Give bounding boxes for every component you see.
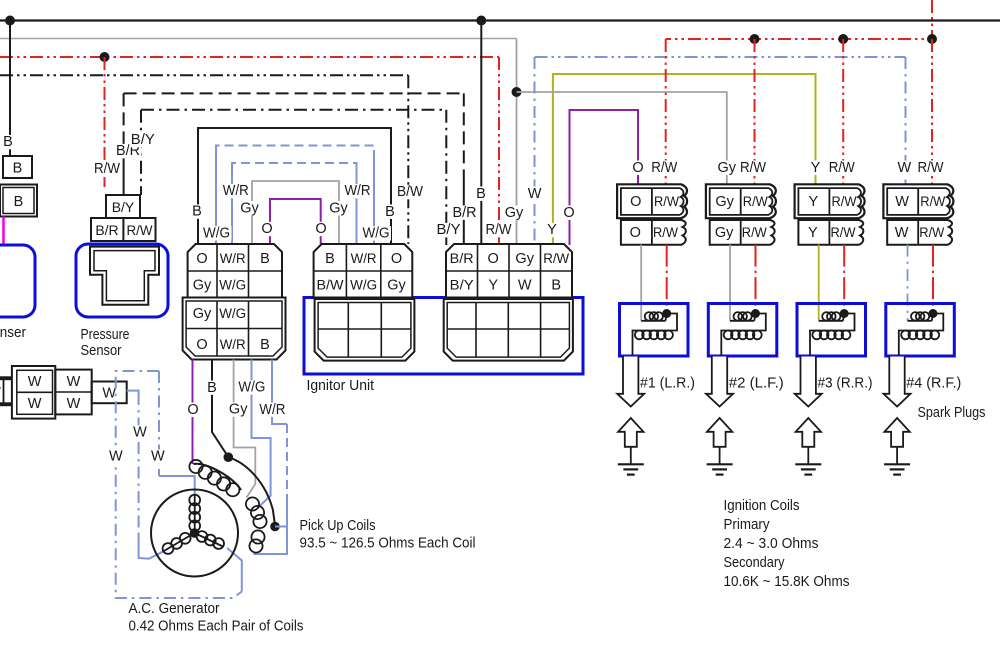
wire B/R drop right xyxy=(463,93,465,180)
wire B drop to condenser xyxy=(9,21,11,157)
coil4 primary winding xyxy=(908,320,932,322)
wire pickup to W/R xyxy=(275,526,287,528)
node junction R/W coil4 xyxy=(927,34,937,44)
label B ignitor xyxy=(475,187,486,201)
svg-text:R/W: R/W xyxy=(653,225,678,240)
ground coil4 xyxy=(884,463,910,465)
svg-text:W/R: W/R xyxy=(220,251,246,266)
svg-text:Y: Y xyxy=(808,194,818,210)
wire W/R to pickup upper xyxy=(272,360,287,425)
svg-text:Spark Plugs: Spark Plugs xyxy=(918,405,986,421)
node junction R/W pressure sensor xyxy=(100,52,110,62)
wire R/W drop coil3 xyxy=(842,39,844,184)
coil1 primary winding xyxy=(641,320,665,322)
label W ignitor xyxy=(529,187,540,201)
coil3 connector lower xyxy=(798,220,863,245)
ground coil2 xyxy=(707,463,733,465)
svg-text:Secondary: Secondary xyxy=(724,555,786,571)
svg-text:B: B xyxy=(385,204,395,220)
svg-text:Gy: Gy xyxy=(505,205,524,221)
wire plug to ground coil3 xyxy=(807,447,809,464)
node pickup junction 1 xyxy=(224,452,234,462)
svg-text:Pressure: Pressure xyxy=(81,327,130,343)
connector 2-pin W xyxy=(55,370,91,415)
node pickup junction 2 xyxy=(270,522,280,532)
coil2 connector upper xyxy=(706,184,776,218)
svg-text:Primary: Primary xyxy=(724,517,771,533)
wire W/R dashed drop xyxy=(286,424,288,500)
wire B/W drop to ignitor xyxy=(407,75,409,244)
wire Y olive bus xyxy=(553,74,816,245)
svg-text:R/W: R/W xyxy=(651,160,677,176)
coil3 primary winding xyxy=(819,320,843,322)
wire R/W into coil3 xyxy=(843,245,845,314)
label Gy pickup xyxy=(228,402,248,416)
svg-text:Gy: Gy xyxy=(718,160,737,176)
svg-text:W/R: W/R xyxy=(220,337,246,352)
label R/W ignitor xyxy=(484,223,513,237)
wire Gy branch to coil2 xyxy=(517,92,727,184)
node junction R/W coil2 xyxy=(750,34,760,44)
ground coil3 xyxy=(795,463,821,465)
node junction condenser feed xyxy=(5,16,15,26)
svg-text:B: B xyxy=(260,337,270,353)
svg-text:Gy: Gy xyxy=(387,278,406,294)
ignitor grid right xyxy=(444,299,573,361)
condenser pin box B double xyxy=(0,185,37,217)
svg-text:Gy: Gy xyxy=(193,306,212,322)
wire Gy to pickup xyxy=(234,360,256,498)
ignitor grid left xyxy=(315,299,415,361)
svg-text:W: W xyxy=(895,194,909,210)
label Gy ignitor xyxy=(504,206,524,220)
svg-text:B: B xyxy=(14,194,24,210)
label Y R/W coil3 xyxy=(810,161,821,175)
pickup coil B xyxy=(246,497,259,510)
wire W/G to pickup xyxy=(252,360,271,509)
wire W dash-dot drop xyxy=(138,393,140,534)
svg-text:W/G: W/G xyxy=(363,226,390,242)
node coil3 tap xyxy=(840,309,849,318)
label W/R left crossover xyxy=(221,184,250,198)
wire W blue drop to coil4 xyxy=(905,57,907,184)
coil4 connector upper xyxy=(883,184,953,218)
svg-text:O: O xyxy=(196,251,207,267)
coil2 spark plug arrow up xyxy=(707,418,732,447)
coil3 spark plug arrow up xyxy=(796,418,821,447)
wire W dash-dot right leg xyxy=(158,371,160,476)
wire gray bus xyxy=(0,38,517,40)
node junction Gy branch xyxy=(512,87,522,97)
label B/Y pressure xyxy=(129,133,156,147)
wire plug to ground coil1 xyxy=(630,447,632,464)
svg-text:B/Y: B/Y xyxy=(112,199,135,215)
svg-text:Y: Y xyxy=(808,225,818,241)
svg-text:B: B xyxy=(207,380,217,396)
label W/G left crossover xyxy=(202,226,232,240)
svg-text:Y: Y xyxy=(811,160,821,176)
svg-text:W: W xyxy=(895,225,909,241)
svg-text:B/Y: B/Y xyxy=(131,132,155,148)
svg-text:B/W: B/W xyxy=(317,278,344,293)
svg-text:B/Y: B/Y xyxy=(437,222,461,238)
svg-text:B: B xyxy=(551,278,561,294)
node junction R/W coil3 xyxy=(838,34,848,44)
svg-text:W: W xyxy=(151,449,165,465)
svg-text:W: W xyxy=(109,449,123,465)
generator circle xyxy=(151,490,238,577)
svg-text:B: B xyxy=(192,204,202,220)
pickup coil arc xyxy=(228,457,275,525)
coil4 HT arrow down xyxy=(884,357,911,407)
svg-text:W: W xyxy=(518,278,532,294)
wire B/Y dash-dot run xyxy=(141,109,446,111)
node coil1 tap xyxy=(662,309,671,318)
svg-text:W: W xyxy=(528,186,542,202)
svg-text:Sensor: Sensor xyxy=(81,343,122,359)
svg-text:B: B xyxy=(325,251,335,267)
pickup coil A xyxy=(194,464,242,490)
wire Gy into coil2 xyxy=(729,245,731,321)
coil2 secondary winding xyxy=(721,314,766,357)
wire R/W drop coil2 xyxy=(754,39,756,184)
svg-text:W: W xyxy=(28,374,42,390)
wire B/Y drop left xyxy=(140,110,142,195)
wire W/G crossover xyxy=(215,151,217,244)
wire O into coil1 xyxy=(640,245,642,321)
label W generator 2 xyxy=(110,449,121,463)
wire W/R crossover xyxy=(231,168,233,244)
coil4 spark plug arrow up xyxy=(884,418,909,447)
wire B crossover xyxy=(198,128,391,244)
svg-text:Gy: Gy xyxy=(229,402,248,418)
svg-text:O: O xyxy=(196,337,207,353)
svg-text:#2 (L.F.): #2 (L.F.) xyxy=(729,376,784,392)
label B pickup xyxy=(206,381,217,395)
svg-text:R/W: R/W xyxy=(832,194,857,209)
label W generator 3 xyxy=(152,449,163,463)
wire Gy crossover xyxy=(252,181,339,244)
coil2 primary winding xyxy=(730,320,754,322)
svg-text:W/R: W/R xyxy=(223,183,249,199)
svg-text:O: O xyxy=(488,251,499,267)
coil2 connector lower xyxy=(710,220,775,245)
wire W into coil4 xyxy=(907,245,909,321)
label W/R right crossover xyxy=(343,184,372,198)
label B/R pressure xyxy=(115,144,142,158)
connector middle B W/R O xyxy=(314,244,413,298)
svg-text:R/W: R/W xyxy=(918,160,944,176)
label Gy right crossover xyxy=(329,201,349,215)
condenser body xyxy=(0,245,35,317)
svg-text:R/W: R/W xyxy=(920,194,945,209)
svg-text:O: O xyxy=(630,225,641,241)
label Gy left crossover xyxy=(240,201,260,215)
svg-text:0.42 Ohms Each Pair of Coils: 0.42 Ohms Each Pair of Coils xyxy=(129,619,304,635)
coil1 spark plug arrow up xyxy=(618,418,643,447)
svg-text:B: B xyxy=(476,186,486,202)
wire generator SE exit xyxy=(227,548,242,592)
svg-text:2.4 ~ 3.0 Ohms: 2.4 ~ 3.0 Ohms xyxy=(724,536,819,552)
svg-text:R/W: R/W xyxy=(543,251,569,266)
svg-text:R/W: R/W xyxy=(831,225,856,240)
wire W to generator top xyxy=(159,476,195,494)
wire B/W black bus xyxy=(0,74,408,76)
svg-text:O: O xyxy=(563,205,574,221)
svg-text:10.6K ~ 15.8K Ohms: 10.6K ~ 15.8K Ohms xyxy=(724,574,850,590)
svg-text:R/W: R/W xyxy=(486,222,512,238)
svg-text:#4 (R.F.): #4 (R.F.) xyxy=(906,376,961,392)
label B/W ignitor xyxy=(396,185,425,199)
label R/W pressure xyxy=(93,162,122,176)
ignition coil2 box xyxy=(708,304,777,357)
svg-text:R/W: R/W xyxy=(94,161,120,177)
pressure sensor body xyxy=(76,244,168,317)
label W/G pickup xyxy=(237,380,267,394)
wire R/W drop coil1 xyxy=(665,39,667,184)
coil2 HT arrow down xyxy=(706,357,733,407)
label O R/W coil1 xyxy=(632,161,643,175)
wire main black bus xyxy=(0,19,1000,21)
label O right crossover xyxy=(315,222,326,236)
connector 4-pin W xyxy=(12,366,55,419)
ignition coil3 box xyxy=(797,304,866,357)
ground coil1 xyxy=(618,463,644,465)
svg-text:W/G: W/G xyxy=(238,380,265,396)
coil1 secondary winding xyxy=(633,314,678,357)
label W/R pickup xyxy=(258,403,287,417)
coil3 connector upper xyxy=(795,184,865,218)
svg-text:R/W: R/W xyxy=(829,160,855,176)
label B right crossover xyxy=(384,205,395,219)
ignitor unit box xyxy=(304,298,583,375)
svg-text:W/G: W/G xyxy=(350,278,377,293)
svg-text:O: O xyxy=(315,221,326,237)
coil1 connector lower xyxy=(621,220,686,245)
label B left crossover xyxy=(191,204,202,218)
svg-text:O: O xyxy=(391,251,402,267)
svg-text:W: W xyxy=(133,425,147,441)
svg-text:#3 (R.R.): #3 (R.R.) xyxy=(818,376,873,392)
svg-text:#1 (L.R.): #1 (L.R.) xyxy=(640,376,695,392)
svg-text:93.5 ~ 126.5 Ohms Each Coil: 93.5 ~ 126.5 Ohms Each Coil xyxy=(300,536,476,552)
svg-text:Condenser: Condenser xyxy=(0,325,26,341)
svg-text:W: W xyxy=(28,396,42,412)
svg-text:Ignitor Unit: Ignitor Unit xyxy=(307,378,375,394)
generator coil top xyxy=(194,494,196,533)
coil4 secondary winding xyxy=(899,314,944,357)
node coil4 tap xyxy=(929,309,938,318)
wire R/W drop to pressure sensor xyxy=(104,57,106,187)
wire Gy gray riser xyxy=(516,39,518,246)
label W generator 1 xyxy=(134,425,145,439)
ignition coil4 box xyxy=(886,304,955,357)
wire B/R drop left xyxy=(123,93,125,148)
connector right B/R O Gy R/W xyxy=(446,244,572,298)
svg-text:B: B xyxy=(260,251,270,267)
label O left crossover xyxy=(261,222,272,236)
svg-text:W/G: W/G xyxy=(219,306,246,321)
svg-text:B: B xyxy=(13,161,23,177)
wire Y into coil3 xyxy=(818,245,820,321)
coil3 HT arrow down xyxy=(795,357,822,407)
svg-text:Gy: Gy xyxy=(715,225,734,241)
wire R/W red riser to ignitor xyxy=(498,57,500,245)
ignition coil1 box xyxy=(620,304,689,357)
svg-text:R/W: R/W xyxy=(654,194,679,209)
svg-text:Ignition Coils: Ignition Coils xyxy=(724,498,800,514)
wire magenta condenser xyxy=(2,217,5,246)
coil3 secondary winding xyxy=(810,314,855,357)
svg-text:Y: Y xyxy=(547,222,557,238)
wire W blue bus xyxy=(535,56,906,58)
label Y ignitor xyxy=(546,223,557,237)
svg-text:Y: Y xyxy=(488,278,498,294)
wire R/W red bus top xyxy=(666,0,932,39)
wire W dash-dot frame xyxy=(116,371,242,598)
wire B/R dashed run xyxy=(124,92,464,94)
wire R/W into coil1 xyxy=(666,245,668,314)
wire W blue from tab xyxy=(127,391,139,393)
coil1 HT arrow down xyxy=(617,357,644,407)
label O pickup xyxy=(187,403,198,417)
node generator center xyxy=(190,528,200,538)
connector left-bottom Gy W/G O W/R B xyxy=(183,298,286,360)
wire plug to ground coil2 xyxy=(719,447,721,464)
wire B black drop to ignitor xyxy=(480,21,482,246)
label O ignitor xyxy=(563,206,574,220)
wire plug to ground coil4 xyxy=(896,447,898,464)
svg-text:Gy: Gy xyxy=(329,200,348,216)
svg-text:B/R: B/R xyxy=(450,251,474,266)
wire O purple run xyxy=(570,110,639,245)
wire O purple to pickup xyxy=(192,360,194,465)
coil1 connector upper xyxy=(617,184,687,218)
generator coil SE xyxy=(195,533,224,547)
svg-text:W: W xyxy=(102,386,116,402)
svg-text:B/Y: B/Y xyxy=(450,278,474,293)
svg-text:O: O xyxy=(261,221,272,237)
connector left-top O W/R B xyxy=(188,244,282,298)
svg-text:Gy: Gy xyxy=(193,278,212,294)
wire W to generator SW xyxy=(139,534,164,559)
label B/R ignitor xyxy=(451,206,478,220)
svg-text:B/R: B/R xyxy=(453,205,477,221)
node junction B ignitor feed xyxy=(476,16,486,26)
svg-text:B/R: B/R xyxy=(95,222,118,238)
wire O crossover xyxy=(270,199,321,244)
generator coil SW xyxy=(163,533,195,552)
svg-text:R/W: R/W xyxy=(743,194,768,209)
svg-text:W/G: W/G xyxy=(203,226,230,242)
label B/Y ignitor xyxy=(435,223,462,237)
svg-text:Gy: Gy xyxy=(515,251,534,267)
wire B/Y drop right xyxy=(445,110,447,245)
svg-text:W: W xyxy=(897,160,911,176)
svg-text:O: O xyxy=(630,194,641,210)
label W/G right crossover xyxy=(361,226,391,240)
svg-text:W/R: W/R xyxy=(259,402,285,418)
svg-text:Pick Up Coils: Pick Up Coils xyxy=(300,518,376,534)
wire R/W into coil2 xyxy=(755,245,757,314)
connector tab W xyxy=(92,382,127,404)
svg-text:B: B xyxy=(3,134,13,150)
node coil2 tap xyxy=(751,309,760,318)
label Gy R/W coil2 xyxy=(717,161,737,175)
svg-text:W/R: W/R xyxy=(345,183,371,199)
svg-text:W/G: W/G xyxy=(219,278,246,293)
svg-text:Gy: Gy xyxy=(715,194,734,210)
svg-text:R/W: R/W xyxy=(919,225,944,240)
pressure sensor pin boxes B/R R/W xyxy=(91,218,156,241)
svg-text:B/W: B/W xyxy=(397,184,423,200)
wire B to pickup xyxy=(212,360,227,456)
pressure sensor plug xyxy=(90,247,159,305)
svg-text:W: W xyxy=(67,374,81,390)
wire R/W drop coil4 xyxy=(931,39,933,184)
pressure sensor pin box B/Y xyxy=(106,195,140,218)
svg-text:O: O xyxy=(632,160,643,176)
svg-text:R/W: R/W xyxy=(740,160,766,176)
wire R/W red bus left xyxy=(0,56,499,58)
coil4 connector lower xyxy=(887,220,952,245)
svg-text:R/W: R/W xyxy=(742,225,767,240)
label W R/W coil4 xyxy=(899,161,910,175)
wire R/W into coil4 xyxy=(932,245,934,314)
connector stub bars xyxy=(0,376,12,380)
svg-text:A.C. Generator: A.C. Generator xyxy=(129,601,220,617)
svg-text:O: O xyxy=(187,402,198,418)
svg-text:R/W: R/W xyxy=(127,223,153,238)
wire W blue drop to ignitor xyxy=(534,57,536,245)
label B condenser xyxy=(2,135,13,149)
wire W/R to pickup lower xyxy=(253,500,287,554)
svg-text:W: W xyxy=(67,396,81,412)
condenser pin box B xyxy=(3,156,32,178)
svg-text:Gy: Gy xyxy=(240,200,259,216)
svg-text:W/R: W/R xyxy=(351,251,377,266)
